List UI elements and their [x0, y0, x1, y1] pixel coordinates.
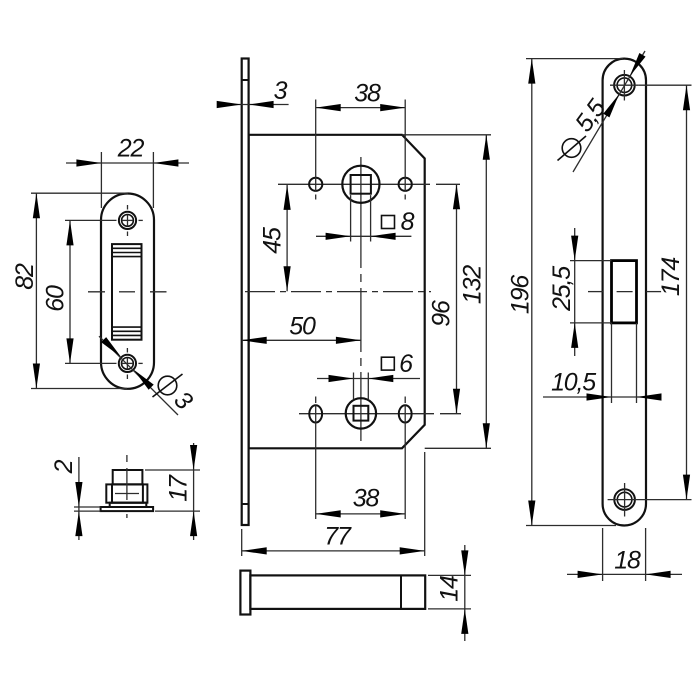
svg-text:174: 174	[657, 258, 685, 296]
key hole with 6mm square	[346, 398, 376, 428]
svg-text:38: 38	[354, 79, 381, 107]
spindle hole with 8mm square	[342, 166, 379, 203]
strike plate front view outline	[101, 194, 154, 389]
svg-text:82: 82	[11, 263, 39, 290]
left fixing hole (top row)	[309, 177, 322, 200]
svg-text:22: 22	[117, 134, 145, 162]
square 6 label	[381, 350, 413, 378]
dimension 38 bottom (oval holes spacing)	[316, 406, 406, 520]
square 8 label	[382, 208, 415, 236]
diameter 3 leader	[99, 336, 198, 415]
faceplate latch opening (bold)	[612, 261, 637, 403]
svg-text:18: 18	[614, 546, 641, 574]
dimension 60 (screw hole spacing)	[41, 220, 116, 363]
dimension 96 (hole rows spacing)	[427, 184, 460, 413]
faceplate front view outline	[603, 59, 646, 526]
svg-text:10,5: 10,5	[551, 368, 596, 396]
dimension 45 (spindle to centerline)	[258, 185, 290, 291]
faceplate top screw hole	[610, 70, 639, 101]
faceplate horizontal centerline	[588, 291, 661, 293]
dimension 17 (keeper height)	[145, 443, 200, 540]
svg-text:77: 77	[324, 522, 352, 550]
dimension 2 (plate thickness)	[50, 457, 101, 540]
dimension 3 (faceplate thickness)	[217, 77, 289, 108]
svg-text:132: 132	[458, 265, 486, 304]
dimension 77 (body width)	[242, 452, 425, 556]
dimension 25,5 (latch opening height)	[548, 228, 612, 356]
dimension 14 (bolt height)	[428, 545, 471, 641]
right oval hole (bottom row)	[399, 397, 412, 423]
svg-text:96: 96	[427, 300, 455, 327]
strike plate top screw hole	[119, 205, 143, 236]
dimension 174 (screw holes spacing)	[639, 85, 692, 499]
bottom hole row centerline	[299, 413, 461, 415]
body middle dash-dot centerline	[245, 291, 431, 293]
strike plate side view	[101, 455, 154, 518]
dimension 132 (body height)	[402, 135, 491, 449]
dimension 8 (spindle square)	[316, 195, 411, 241]
strike plate horizontal centerline	[88, 291, 167, 293]
lock faceplate edge bar	[242, 59, 249, 526]
svg-text:50: 50	[289, 312, 316, 340]
faceplate bottom screw hole	[608, 483, 642, 517]
left oval hole (bottom row)	[309, 397, 322, 423]
dimension 18 (faceplate width)	[567, 528, 682, 581]
dimension 38 top (fixing holes spacing)	[316, 79, 406, 177]
svg-text:8: 8	[401, 208, 415, 236]
svg-text:2: 2	[50, 459, 78, 474]
svg-text:14: 14	[435, 576, 463, 602]
svg-text:45: 45	[258, 227, 286, 254]
strike plate latch opening	[112, 244, 142, 340]
latch bolt side view	[240, 571, 425, 615]
dimension 22 (strike plate width)	[66, 134, 189, 208]
dimension 196 (faceplate length)	[506, 59, 623, 526]
right fixing hole (top row)	[399, 177, 412, 200]
dimension 10,5 (latch opening width)	[543, 368, 662, 400]
svg-text:3: 3	[274, 77, 288, 105]
dimension 50 (backset)	[242, 312, 361, 344]
svg-text:17: 17	[164, 474, 192, 502]
top hole row centerline	[278, 183, 460, 185]
svg-text:196: 196	[506, 275, 534, 314]
svg-text:38: 38	[353, 484, 380, 512]
svg-text:60: 60	[41, 285, 69, 312]
spindle vertical centerline	[360, 157, 362, 441]
dimension 6 (key square)	[317, 373, 420, 400]
dimension 82 (strike plate height)	[11, 193, 128, 388]
svg-text:25,5: 25,5	[548, 266, 576, 312]
lock body outline	[249, 135, 425, 449]
strike plate bottom screw hole	[119, 348, 143, 379]
svg-text:6: 6	[399, 350, 413, 378]
diameter 5,5 leader	[558, 51, 646, 172]
